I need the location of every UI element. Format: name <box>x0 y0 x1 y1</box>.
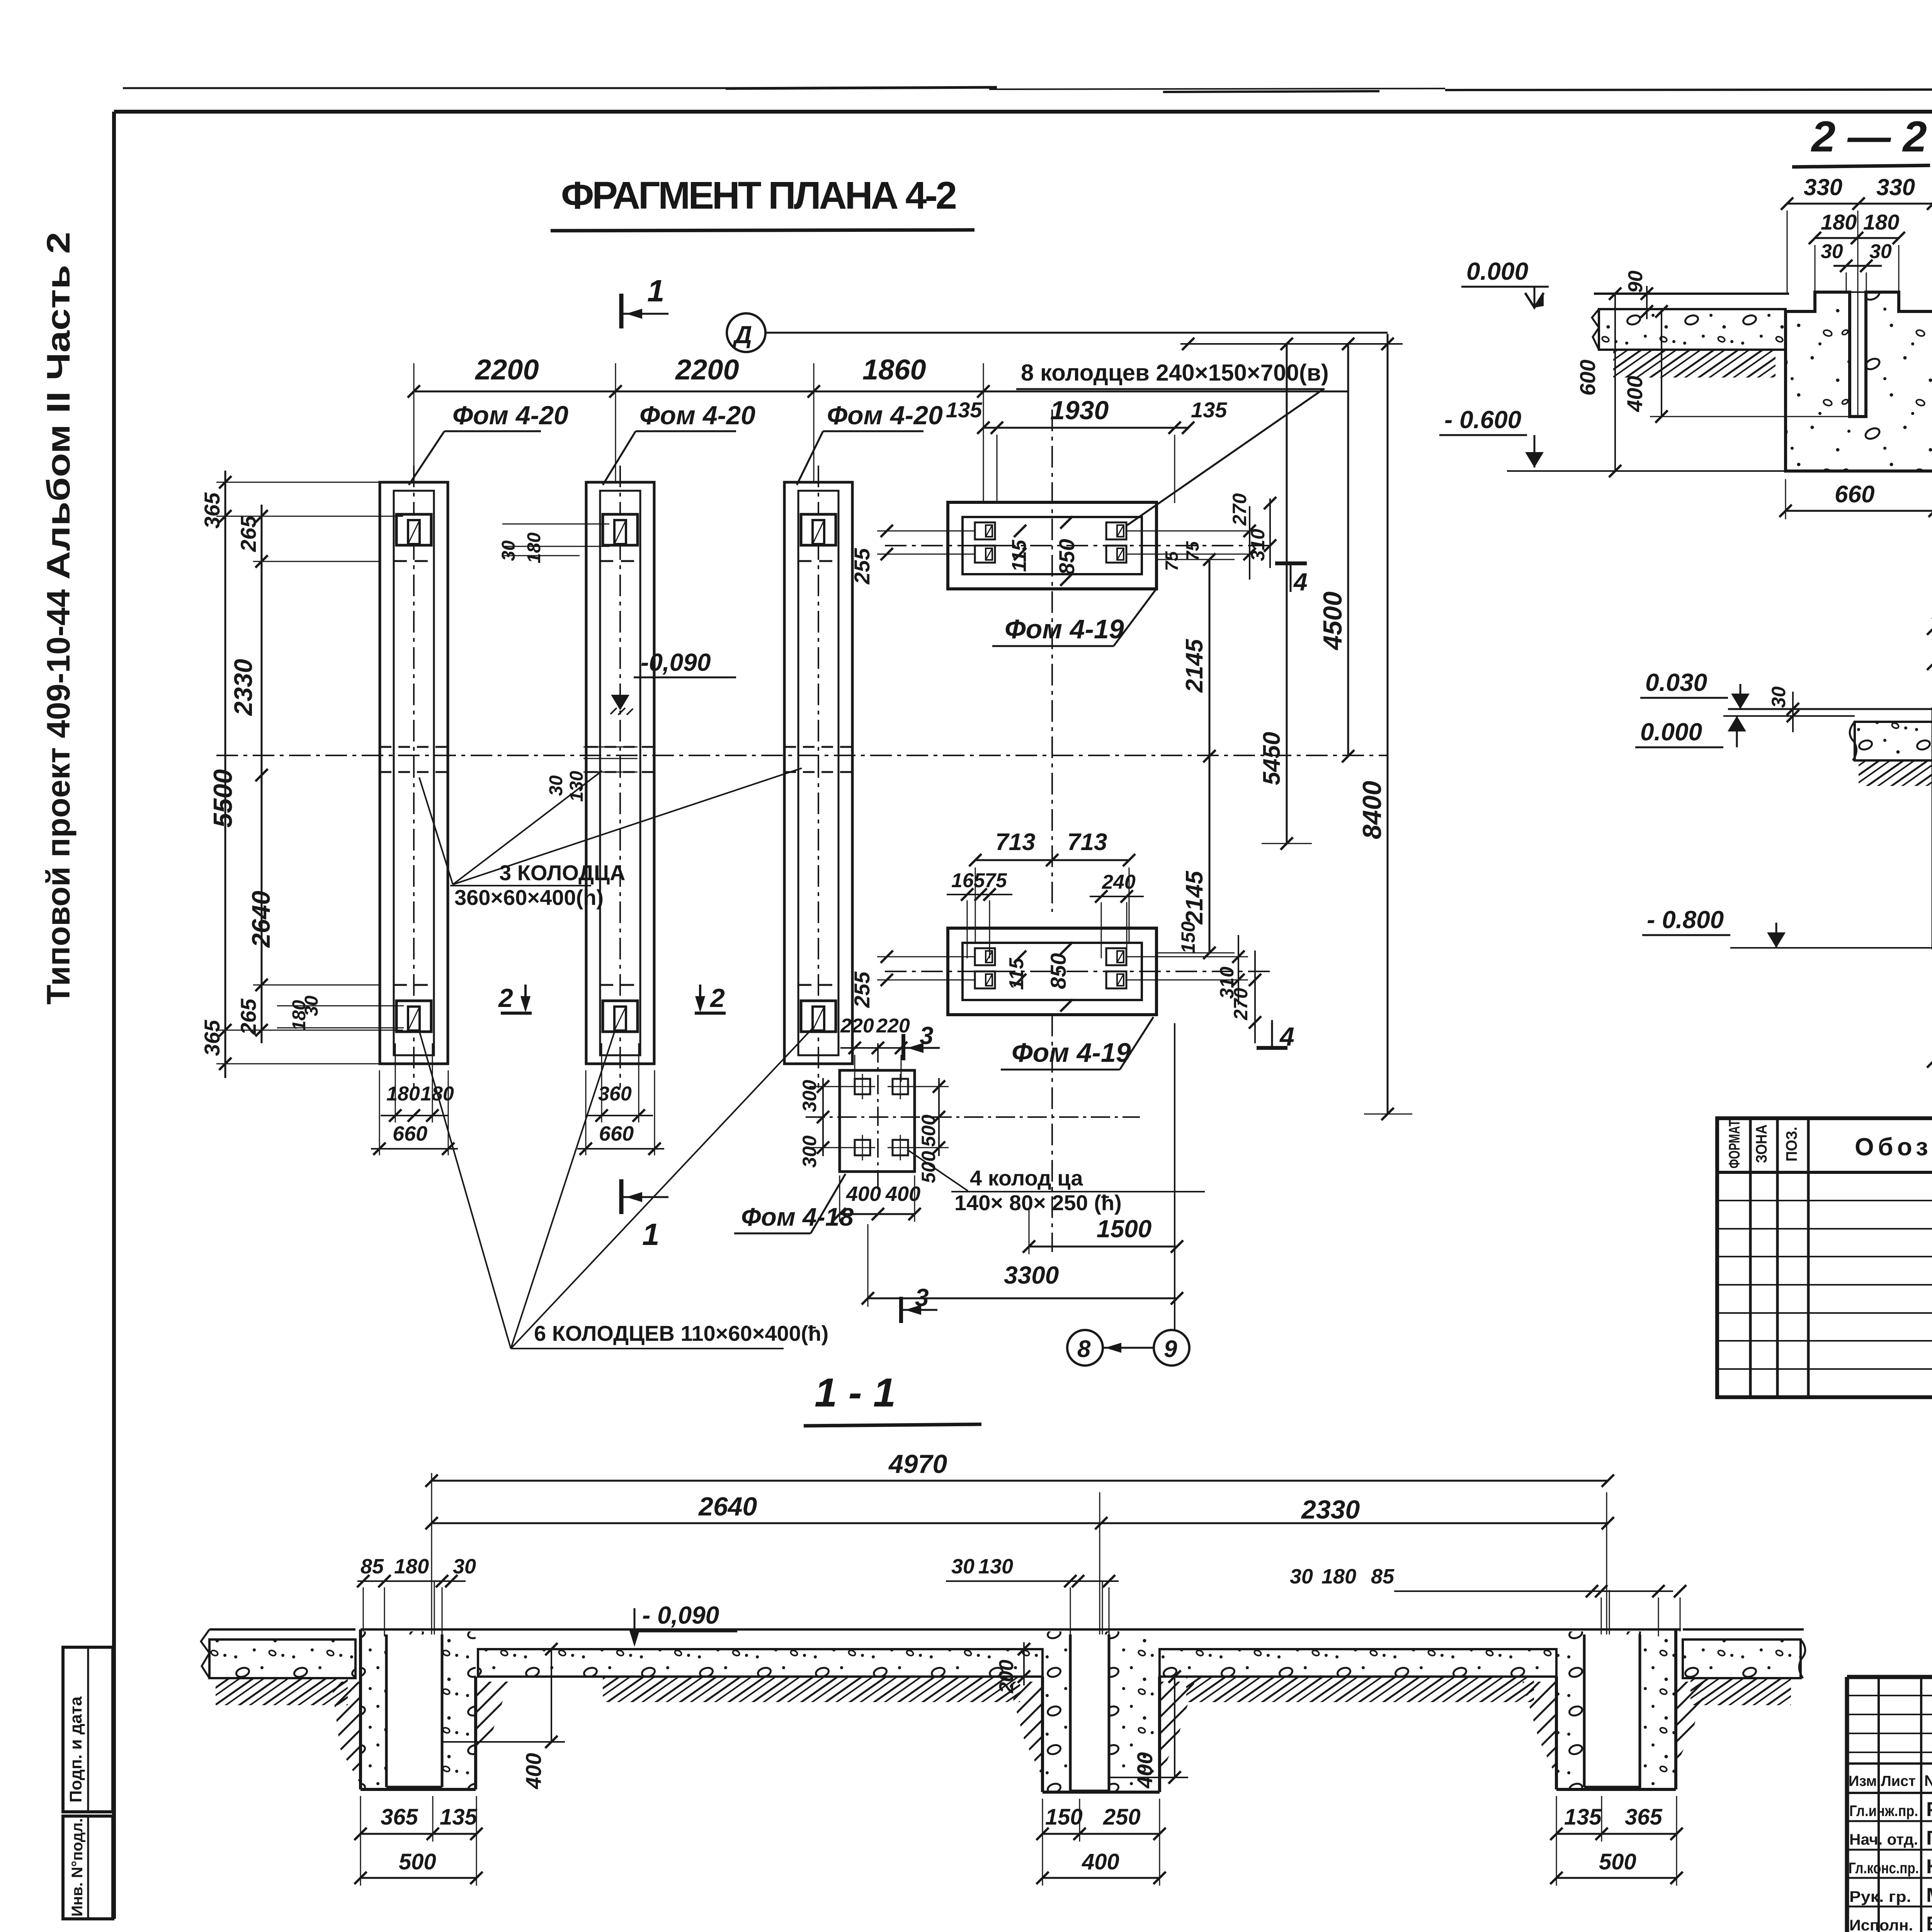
dim 330/330 <box>1787 203 1932 205</box>
svg-text:6 КОЛОДЦЕВ 110×60×400(ħ): 6 КОЛОДЦЕВ 110×60×400(ħ) <box>534 1321 828 1345</box>
soil hatch left <box>1613 350 1776 378</box>
svg-text:Ерохина: Ерохина <box>1926 1913 1932 1932</box>
main floor slab B-C <box>1160 1649 1556 1677</box>
svg-text:360×60×400(h): 360×60×400(h) <box>454 885 604 910</box>
svg-text:30: 30 <box>498 540 519 561</box>
svg-text:4500: 4500 <box>1318 592 1347 651</box>
svg-text:Гл.инж.пр.: Гл.инж.пр. <box>1849 1803 1918 1820</box>
svg-text:1: 1 <box>642 1217 660 1252</box>
footing A section <box>332 1629 565 1886</box>
right dim 5450 <box>1286 344 1288 844</box>
svg-text:8 колодцев 240×150×700(в): 8 колодцев 240×150×700(в) <box>1021 360 1329 386</box>
dim row 135/1930/135 <box>983 427 1188 429</box>
dim row 2200/2200/1860 <box>414 391 1348 393</box>
svg-text:- 0.800: - 0.800 <box>1647 906 1724 934</box>
svg-text:N°документа: N°документа <box>1924 1772 1932 1789</box>
svg-text:713: 713 <box>1067 829 1107 855</box>
svg-text:180: 180 <box>1863 210 1899 234</box>
svg-text:130: 130 <box>566 771 587 802</box>
svg-text:135: 135 <box>440 1804 478 1830</box>
soil wedge left of A <box>332 1682 361 1784</box>
svg-text:365: 365 <box>381 1804 418 1830</box>
svg-text:135: 135 <box>946 398 982 422</box>
svg-text:Типовой проект 409-10-44: Типовой проект 409-10-44 <box>40 589 77 1005</box>
strip footing 1 <box>380 466 448 1088</box>
soil wedge left of B <box>1009 1682 1043 1777</box>
floor lines left of block <box>1728 708 1932 710</box>
soil wedge left of C <box>1522 1682 1556 1777</box>
section mark 1 bottom <box>619 1179 624 1214</box>
svg-text:85: 85 <box>1371 1565 1395 1588</box>
svg-text:135: 135 <box>1191 398 1227 422</box>
soil hatch under main slab <box>603 1677 1020 1702</box>
svg-text:30: 30 <box>1768 686 1789 708</box>
svg-text:30: 30 <box>1821 240 1843 263</box>
svg-text:265: 265 <box>236 515 260 552</box>
svg-text:8400: 8400 <box>1357 781 1387 839</box>
svg-text:150: 150 <box>1045 1804 1083 1830</box>
paper top edge line <box>123 87 726 89</box>
axis bubble D <box>727 313 765 352</box>
svg-text:1 - 1: 1 - 1 <box>815 1370 896 1415</box>
svg-text:30: 30 <box>1290 1565 1313 1588</box>
svg-text:300: 300 <box>799 1135 820 1168</box>
svg-text:250: 250 <box>1103 1804 1141 1830</box>
svg-text:365: 365 <box>200 492 224 529</box>
dim 180/180 <box>1815 237 1899 239</box>
svg-text:Нач. отд.: Нач. отд. <box>1849 1831 1918 1848</box>
axis D leader line <box>765 332 1388 334</box>
svg-text:500: 500 <box>918 1151 939 1183</box>
axis bubble 9 <box>1154 1330 1189 1366</box>
svg-text:180: 180 <box>524 532 544 563</box>
svg-text:9: 9 <box>1164 1336 1177 1362</box>
svg-text:Фом 4-19: Фом 4-19 <box>1012 1037 1131 1068</box>
svg-text:660: 660 <box>599 1122 634 1145</box>
svg-text:1930: 1930 <box>1050 396 1109 425</box>
extension lines <box>1787 211 1788 294</box>
foundation block 2-2 <box>1786 292 1932 471</box>
svg-text:4 колод ца: 4 колод ца <box>970 1166 1083 1190</box>
svg-text:2145: 2145 <box>1181 871 1208 925</box>
margin box Inv N podl <box>63 1816 113 1919</box>
svg-text:Гл.конс.пр.: Гл.конс.пр. <box>1849 1860 1919 1877</box>
svg-text:3: 3 <box>920 1022 934 1049</box>
svg-text:115: 115 <box>1005 957 1028 990</box>
svg-text:400: 400 <box>1133 1752 1157 1789</box>
svg-text:75: 75 <box>1182 541 1202 561</box>
svg-text:1500: 1500 <box>1097 1215 1151 1243</box>
svg-text:- 0.600: - 0.600 <box>1444 406 1521 434</box>
svg-text:4: 4 <box>1279 1022 1294 1051</box>
svg-text:180: 180 <box>394 1555 429 1578</box>
svg-text:30: 30 <box>951 1555 975 1578</box>
footing B section <box>1009 1631 1195 1886</box>
svg-text:220: 220 <box>876 1015 910 1037</box>
svg-text:1860: 1860 <box>862 354 926 386</box>
svg-text:30: 30 <box>546 775 566 796</box>
svg-text:ФОРМАТ: ФОРМАТ <box>1726 1120 1743 1168</box>
svg-text:Рук. гр.: Рук. гр. <box>1849 1888 1911 1905</box>
svg-text:2200: 2200 <box>675 354 739 386</box>
horizontal axis line <box>216 755 1388 756</box>
svg-text:1: 1 <box>647 274 665 308</box>
svg-text:2145: 2145 <box>1181 639 1208 693</box>
svg-text:4: 4 <box>1293 568 1308 596</box>
svg-text:270: 270 <box>1230 988 1252 1020</box>
svg-text:Исполн.: Исполн. <box>1849 1917 1913 1932</box>
footing C section <box>1522 1629 1708 1886</box>
svg-text:165: 165 <box>951 869 985 892</box>
strip footing 3 <box>784 466 852 1088</box>
dim 713/713 <box>975 859 1129 861</box>
mini rows <box>1847 1695 1932 1696</box>
svg-text:ЗОНА: ЗОНА <box>1753 1124 1770 1163</box>
svg-text:Альбом II Часть 2: Альбом II Часть 2 <box>40 232 77 580</box>
svg-text:4970: 4970 <box>888 1449 947 1479</box>
axis extension lines <box>431 1473 432 1786</box>
svg-text:400: 400 <box>1082 1849 1119 1874</box>
svg-text:180: 180 <box>1821 210 1857 234</box>
svg-text:365: 365 <box>200 1020 224 1056</box>
right dims 2145 x2 <box>1209 560 1211 953</box>
svg-text:365: 365 <box>1625 1804 1663 1830</box>
left table verticals <box>1878 1677 1880 1932</box>
left outer slab <box>209 1628 355 1631</box>
svg-text:713: 713 <box>995 829 1035 855</box>
svg-text:2640: 2640 <box>247 891 275 948</box>
strip footing 2 <box>586 466 654 1088</box>
svg-text:2: 2 <box>498 983 513 1013</box>
svg-text:2330: 2330 <box>1301 1495 1360 1524</box>
paper top edge line 2 <box>989 88 1445 89</box>
svg-text:135: 135 <box>1564 1804 1602 1830</box>
left dims line A 365/5500/365 <box>224 471 226 1078</box>
svg-text:400: 400 <box>521 1753 546 1789</box>
svg-text:0.000: 0.000 <box>1640 718 1702 746</box>
svg-text:-0,090: -0,090 <box>641 648 711 676</box>
svg-text:360: 360 <box>598 1083 632 1105</box>
svg-text:5450: 5450 <box>1259 732 1285 785</box>
svg-text:Фом 4-18: Фом 4-18 <box>741 1202 854 1231</box>
svg-text:- 0,090: - 0,090 <box>642 1601 719 1629</box>
svg-text:90: 90 <box>1624 270 1647 293</box>
svg-text:75: 75 <box>985 869 1007 892</box>
svg-text:Лист: Лист <box>1881 1773 1916 1789</box>
svg-text:270: 270 <box>1229 493 1250 526</box>
svg-text:330: 330 <box>1876 174 1915 200</box>
svg-text:30: 30 <box>1869 240 1892 263</box>
dim 30/30 <box>1833 265 1882 267</box>
svg-text:2330: 2330 <box>229 659 257 716</box>
svg-text:400: 400 <box>846 1182 881 1206</box>
svg-text:400: 400 <box>1622 376 1647 412</box>
axis 9 extension line <box>1174 1023 1175 1330</box>
paper top edge line 3 <box>1163 91 1379 92</box>
svg-text:140× 80× 250 (ħ): 140× 80× 250 (ħ) <box>954 1190 1122 1215</box>
svg-text:85: 85 <box>361 1555 384 1578</box>
svg-text:Кальчук: Кальчук <box>1926 1855 1932 1878</box>
svg-text:180: 180 <box>386 1083 420 1105</box>
right dim 4500 <box>1347 344 1349 756</box>
svg-text:3 КОЛОДЦА: 3 КОЛОДЦА <box>499 861 625 885</box>
svg-text:2 — 2: 2 — 2 <box>1811 112 1927 161</box>
big footing Fom4-19 lower <box>948 928 1156 1015</box>
left dims line B 265/2330/2640/265 <box>261 505 263 1043</box>
svg-text:Фом 4-20: Фом 4-20 <box>452 401 568 430</box>
svg-text:500: 500 <box>399 1849 436 1874</box>
section mark 3 upper <box>901 1034 905 1060</box>
svg-text:500: 500 <box>1599 1849 1636 1874</box>
svg-text:255: 255 <box>850 548 874 585</box>
extension lines left <box>216 482 380 483</box>
svg-text:850: 850 <box>1054 539 1079 575</box>
floor slab left <box>1599 309 1786 350</box>
svg-text:850: 850 <box>1046 953 1070 989</box>
svg-text:Изм.: Изм. <box>1849 1773 1881 1789</box>
main floor slab A-B <box>478 1649 1043 1677</box>
svg-text:Фом 4-19: Фом 4-19 <box>1005 614 1124 644</box>
sheet frame left <box>112 112 116 1919</box>
margin box Podp i data <box>63 1647 113 1812</box>
svg-text:Д: Д <box>732 321 752 349</box>
axis bubble 8 <box>1067 1330 1103 1366</box>
section mark 1 top <box>619 294 624 328</box>
soil wedge right of B <box>1160 1682 1195 1777</box>
section mark 4 upper <box>1275 561 1307 565</box>
big footing Fom4-19 upper <box>948 502 1156 589</box>
floor surface line <box>361 1628 1681 1631</box>
svg-text:180: 180 <box>1321 1565 1356 1588</box>
paper top edge line 4 <box>1445 89 1932 90</box>
ground line <box>1594 293 1789 295</box>
name rows <box>1847 1820 1932 1822</box>
svg-text:3300: 3300 <box>1004 1261 1059 1289</box>
svg-text:8: 8 <box>1077 1336 1091 1362</box>
section mark 2 left <box>524 985 527 1009</box>
right outer slab <box>1683 1639 1801 1678</box>
svg-text:130: 130 <box>978 1555 1013 1578</box>
right dim 8400 <box>1387 334 1389 1114</box>
svg-text:660: 660 <box>1835 481 1874 508</box>
svg-text:0.030: 0.030 <box>1645 668 1707 696</box>
sheet frame top <box>114 110 1932 114</box>
section mark 2 right <box>699 985 701 1009</box>
soil wedge right of C <box>1676 1682 1708 1766</box>
svg-text:5500: 5500 <box>208 769 238 828</box>
svg-text:ФРАГМЕНТ ПЛАНА 4-2: ФРАГМЕНТ ПЛАНА 4-2 <box>561 174 957 217</box>
section mark 3 lower <box>899 1297 903 1323</box>
svg-text:Фом 4-20: Фом 4-20 <box>639 401 755 430</box>
svg-text:150: 150 <box>1177 921 1199 954</box>
section mark 4 lower <box>1257 1046 1287 1050</box>
svg-text:ПОЗ.: ПОЗ. <box>1783 1127 1800 1162</box>
svg-text:2200: 2200 <box>474 354 539 386</box>
svg-text:600: 600 <box>1575 360 1600 396</box>
svg-text:0.000: 0.000 <box>1466 257 1528 285</box>
svg-text:330: 330 <box>1804 174 1842 200</box>
svg-text:Фом 4-20: Фом 4-20 <box>827 401 943 430</box>
svg-text:2: 2 <box>709 983 725 1013</box>
svg-text:Рыжак: Рыжак <box>1926 1798 1932 1821</box>
svg-text:300: 300 <box>799 1080 820 1112</box>
square footing Fom 4-18 <box>840 1070 915 1172</box>
soil wedge right of A <box>476 1682 509 1762</box>
svg-text:2640: 2640 <box>698 1492 757 1521</box>
svg-text:Подп. и дата: Подп. и дата <box>66 1696 85 1803</box>
svg-text:Глазунов: Глазунов <box>1926 1827 1932 1849</box>
svg-text:Маслобойщнкова: Маслобойщнкова <box>1926 1884 1932 1906</box>
svg-text:Инв. N°подл.: Инв. N°подл. <box>69 1818 86 1917</box>
svg-text:255: 255 <box>850 971 874 1008</box>
svg-text:660: 660 <box>393 1122 427 1145</box>
outer border <box>1847 1675 1932 1679</box>
svg-text:220: 220 <box>840 1015 874 1037</box>
floor slab left 4-4 <box>1855 722 1932 760</box>
